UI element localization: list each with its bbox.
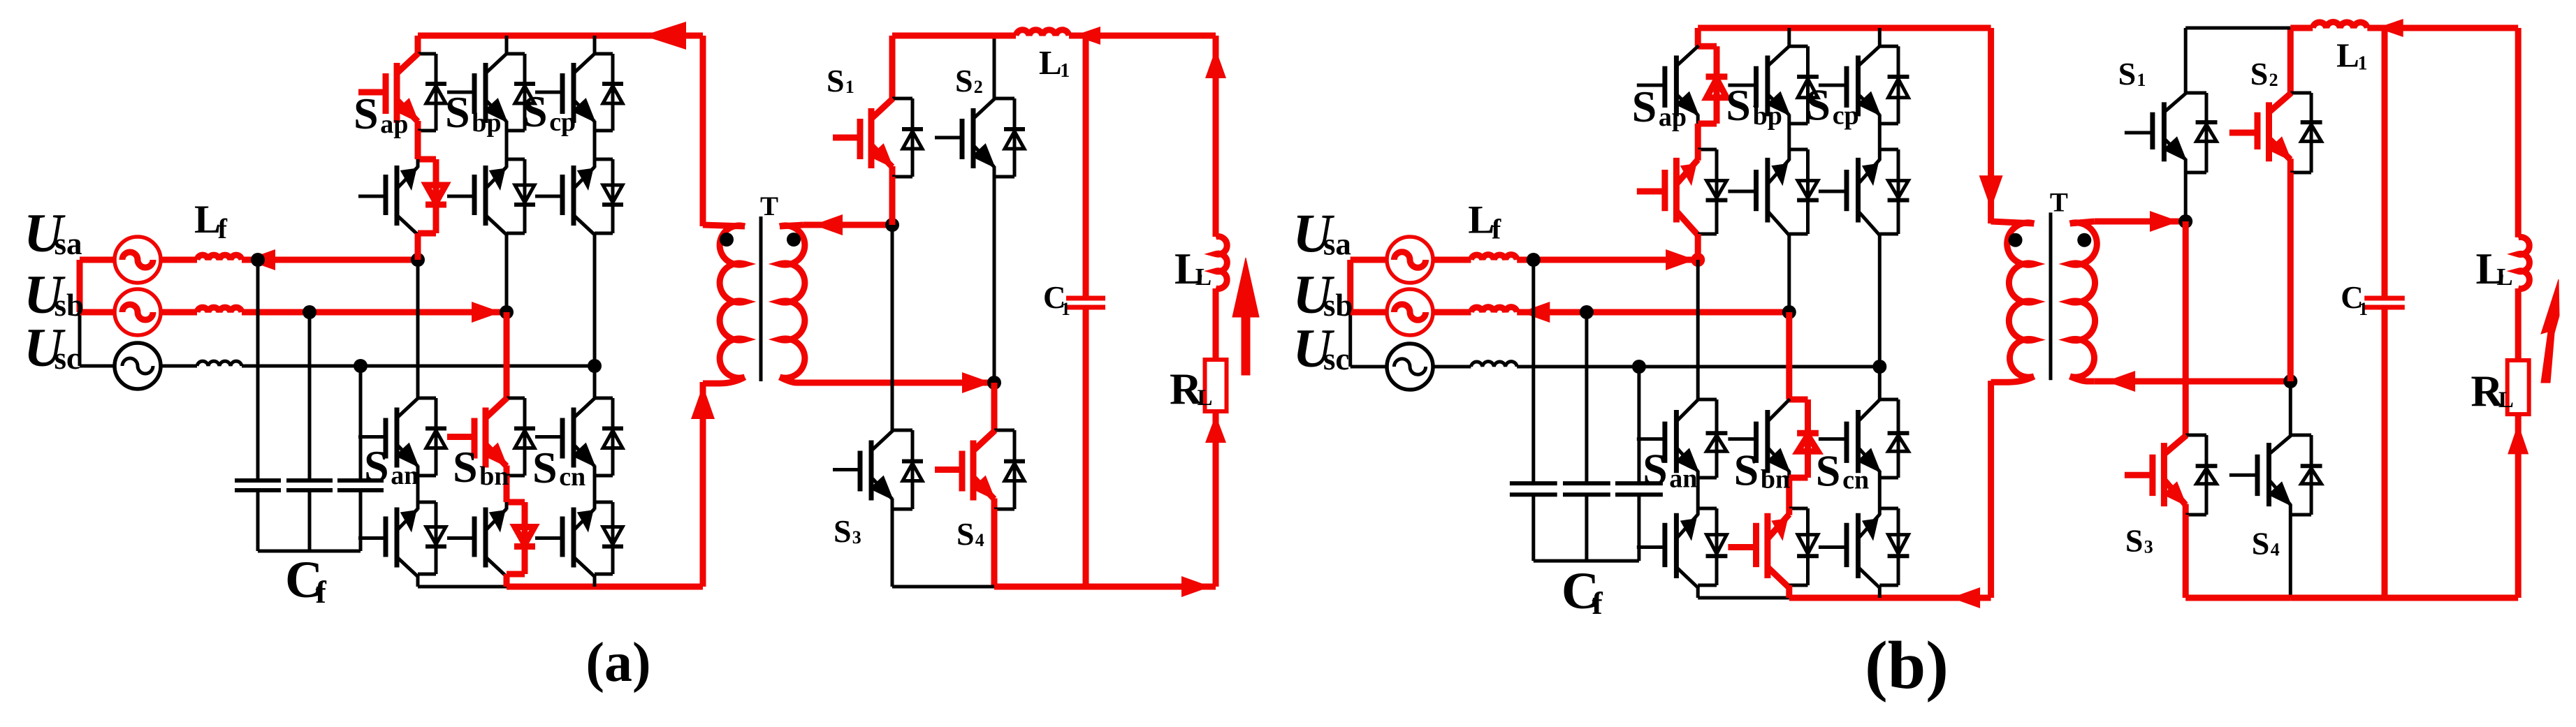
wire secondary bottom exit [2070,376,2095,381]
svg-text:an: an [391,461,419,490]
wire S_bn upper unit top [507,397,525,400]
wire phase c line [1517,365,1879,369]
svg-text:ap: ap [380,110,408,139]
transistor S_cp lower IGBT [1819,190,1846,193]
arrow current load branch top [1205,49,1226,78]
capacitor C_f unit 3 [337,478,384,483]
svg-text:(a): (a) [585,632,650,693]
wire primary top entry [703,225,745,226]
transistor S1 IGBT [833,135,859,141]
wire S3 top lead [891,225,894,430]
node phase a / filter cap 1 [1527,253,1541,267]
svg-text:S: S [453,442,478,492]
diode S4 antiparallel [2310,435,2313,515]
capacitor C1 [2364,296,2405,301]
label C1 [1043,280,1070,319]
wire S_bp lower unit top [1789,148,1808,152]
wire S_cp lower unit top [1879,148,1898,152]
wire S3 box top [2185,434,2206,437]
diode S_an upper antiparallel [1715,399,1719,478]
wire S3 box bottom [2185,513,2206,517]
label S3 [834,513,861,549]
wire S_cp upper unit bottom [1879,122,1898,126]
svg-text:3: 3 [852,527,861,548]
arrow current primary lead [691,385,715,419]
wire filter cap 2 lower lead [308,490,312,551]
transistor S3 IGBT [2125,472,2152,478]
wire S_an upper unit bottom [1698,476,1717,480]
wire bridge top rail mid [994,33,1016,39]
wire S_ap lower unit top [1698,148,1717,152]
wire load branch bottom [2515,414,2522,598]
inductor L_f phase a [1471,255,1517,260]
arrow current below R_L [1205,415,1226,443]
svg-text:S: S [1632,82,1657,131]
wire S4 box bottom [2290,513,2311,517]
wire S_bp lower unit top [507,158,525,161]
wire secondary bottom exit [780,377,803,383]
wire load branch top [2515,28,2522,237]
transistor S2 IGBT [2229,130,2257,136]
AC source U_sc [1387,344,1433,390]
diode S1 antiparallel [2205,93,2208,172]
diode S_cn lower antiparallel [611,502,615,574]
wire source U_sc left lead [80,365,116,368]
label S_bn [453,442,509,492]
wire filter cap 3 upper lead [359,366,363,480]
svg-text:ap: ap [1659,103,1687,132]
transistor S_an upper IGBT [358,435,385,439]
wire negative rail left [418,585,507,589]
node phase a / switch column a [411,253,425,267]
svg-text:L: L [2498,388,2514,413]
wire filter cap common [1534,559,1639,563]
diode S_cn lower antiparallel [1897,508,1900,585]
label C_f [1562,562,1603,621]
wire S2 box top [2290,91,2311,95]
diode S2 antiparallel [2310,93,2313,172]
wire S_ap upper unit top [418,52,436,56]
node phase a / switch column a [1691,253,1705,267]
label S_bp [445,87,501,138]
wire S_cn upper unit top [1879,398,1898,402]
wire filter cap 1 lower lead [1531,494,1535,561]
transistor S_bp upper IGBT [447,91,474,94]
wire S_bp lower unit bottom [507,232,525,235]
arrow current secondary top [813,214,843,235]
wire S_cp column to top rail [1878,28,1882,46]
label L_L [1174,244,1211,293]
label S_bn [1734,445,1791,494]
wire S1 box bottom [2185,171,2206,175]
svg-text:bn: bn [1761,464,1790,494]
wire S_cn upper unit top [595,397,613,400]
wire load branch mid [1213,288,1219,360]
svg-text:sc: sc [54,341,81,376]
capacitor C_f unit 3 [1615,481,1663,485]
diode S4 antiparallel [1013,430,1017,509]
wire S2 box top [994,97,1014,101]
svg-text:S: S [1734,445,1759,494]
wire S_an lower unit bottom [418,573,436,576]
svg-text:1: 1 [2359,299,2368,319]
diode S_an lower antiparallel [1715,508,1719,585]
wire bridge top rail right [2367,25,2518,31]
label S4 [956,516,984,552]
transistor S_ap upper IGBT [358,89,385,96]
wire secondary bottom line [803,380,994,386]
wire S2 bottom lead [2287,172,2294,381]
label S_ap [1632,82,1687,132]
inductor L_f phase b [197,307,242,312]
transistor S_cp upper IGBT [1819,84,1846,87]
diode S_cp upper antiparallel [1897,46,1900,124]
wire S_cn mid link [1878,478,1882,508]
wire S_cp upper unit top [595,52,613,56]
svg-text:S: S [2252,526,2270,561]
transistor S_an lower IGBT [1637,545,1664,549]
arrow current phase b [472,302,501,323]
transistor S3 IGBT [833,468,859,471]
wire S_cp mid link [593,131,597,159]
label S_an [364,441,419,491]
wire negative rail right [507,584,703,590]
AC source U_sa [1387,237,1433,283]
transistor S_ap lower IGBT [358,195,385,198]
wire source U_sc left lead [1351,365,1388,369]
svg-text:1: 1 [2358,53,2368,75]
wire S_bn lower unit top [1789,507,1808,511]
wire S_bn mid link [1786,478,1792,508]
wire S_bp column to top rail [505,36,509,54]
arrow current phase a [1666,249,1695,270]
wire S_an column to negative rail [1696,585,1700,598]
wire negative rail right [1789,595,1991,601]
wire S4 box top [2290,434,2311,437]
wire S_bn lower unit top [507,499,525,506]
svg-text:S: S [2250,56,2269,91]
wire S_cn column to negative rail [593,574,597,587]
wire S4 bottom lead [2289,515,2292,598]
label S4 [2252,526,2280,561]
AC source U_sb [1387,289,1433,335]
label S_bp [1726,80,1782,131]
wire S_bn upper unit top [1789,397,1808,403]
wire S_cn lower unit top [1879,507,1898,511]
wire positive rail [1698,25,1991,31]
diode S_bp upper antiparallel [1806,46,1810,124]
wire S_bn mid link [504,476,510,502]
label R_L [2471,366,2514,416]
wire S_ap lower unit top [418,156,436,163]
label S_an [1643,444,1697,494]
wire S_cp lower unit bottom [595,232,613,235]
wire phase a line [242,257,418,263]
wire S_cn lower unit top [595,501,613,504]
wire S4 box top [994,429,1014,432]
diode S_cp lower antiparallel [611,159,615,233]
wire primary bottom lead [1988,381,1994,598]
diode S_bn lower antiparallel [522,502,528,574]
diode S1 antiparallel [911,98,915,177]
diode S_ap lower antiparallel [1715,149,1719,234]
wire S_cn lower unit bottom [1879,584,1898,587]
wire S_bp mid link [1787,124,1791,149]
wire C1 lower lead [2382,307,2388,598]
wire S_ap column to top rail [415,36,421,54]
diode S3 antiparallel [911,430,915,509]
wire neutral bus a-b [1347,260,1353,312]
label L_f [1468,198,1501,245]
transistor S_bn lower IGBT [1728,544,1755,550]
wire S_cp column to top rail [593,36,597,54]
wire phase b line [242,309,507,316]
arrow current negative rail [1951,587,1980,608]
wire S_cp upper unit bottom [595,129,613,133]
svg-text:4: 4 [975,530,984,550]
svg-text:S: S [1816,446,1841,496]
arrow current positive rail [643,22,686,50]
transistor S_ap upper IGBT [1637,84,1664,87]
wire load branch mid [2515,288,2522,360]
transistor S_cn lower IGBT [535,536,562,540]
svg-text:T: T [760,191,778,221]
wire source U_sa left lead [1351,257,1388,263]
svg-text:cn: cn [559,462,585,492]
diode S_bp lower antiparallel [523,159,527,233]
transistor S_bp upper IGBT [1728,84,1755,87]
wire S_ap column to phase node [415,233,421,260]
svg-text:1: 1 [845,77,854,97]
svg-text:L: L [2496,263,2512,291]
label S2 [955,63,983,98]
wire S_an mid link [1696,478,1700,508]
wire S_an column from phase node [1696,260,1700,399]
wire bridge top rail right [1069,33,1216,39]
wire neutral bus b-c [1348,312,1352,367]
node secondary bottom junction [2283,374,2297,388]
wire load branch bottom [1213,411,1219,587]
wire source U_sb right lead [159,309,197,316]
svg-text:sa: sa [54,226,82,261]
wire primary bottom lead [700,382,706,587]
wire S_bp column to top rail [1787,28,1791,46]
wire S1 box top [2185,91,2206,95]
AC source U_sa [115,237,161,283]
svg-text:S: S [532,443,558,492]
wire S_bp upper unit bottom [1789,122,1808,126]
inductor L1 [2313,22,2367,28]
label L_f [194,198,228,244]
svg-text:sc: sc [1323,342,1350,376]
resistor R_L [1205,360,1227,411]
wire bridge top rail left [892,33,994,39]
wire S_an column from phase node [416,260,420,398]
label C_f [285,551,327,610]
arrow current secondary bottom [2106,371,2135,392]
winding transformer secondary [2070,223,2097,377]
wire S_cn upper unit bottom [595,474,613,478]
winding transformer secondary [780,226,805,378]
label S2 [2250,56,2278,91]
transistor S_cn upper IGBT [535,435,562,439]
wire S_an upper unit bottom [418,474,436,478]
label S_cn [532,443,585,492]
wire secondary top line [803,222,892,228]
inductor L_f phase c [1471,362,1517,367]
wire phase a line [1517,257,1698,263]
node secondary top junction [885,218,899,232]
node transformer secondary polarity dot [2077,233,2091,247]
arrow output current indicator [1232,258,1259,375]
label S_cn [1816,446,1869,496]
wire bridge bottom rail left [2185,595,2290,601]
label R_L [1170,364,1213,413]
winding transformer primary [720,226,745,378]
svg-text:(b): (b) [1865,628,1949,703]
svg-text:S: S [2118,56,2137,91]
diode S_cp lower antiparallel [1897,149,1900,234]
diode S3 antiparallel [2205,435,2208,515]
transistor S_cp lower IGBT [535,195,562,198]
wire S_cp lower unit bottom [1879,233,1898,236]
arrow current phase a [246,249,275,270]
wire secondary top entry [2070,221,2095,223]
diode S_bn lower antiparallel [1806,508,1810,585]
wire primary top entry [1991,221,2035,223]
svg-text:cp: cp [549,108,576,137]
svg-text:f: f [218,213,228,244]
wire filter cap 2 lower lead [1585,494,1588,561]
wire S_cp upper unit top [1879,45,1898,48]
wire S_bn column to negative rail [504,574,510,587]
svg-text:S: S [1643,444,1668,494]
wire source U_sc right lead [159,365,197,368]
label L_L [2476,244,2513,293]
wire secondary bottom line [2095,379,2291,385]
wire S_ap mid link [1695,124,1701,149]
wire S1 top lead [889,36,896,98]
svg-text:S: S [445,87,470,137]
wire S_ap upper unit top [1698,43,1717,50]
wire filter cap 2 upper lead [1585,312,1588,483]
wire S1 box bottom [892,175,912,179]
label T [2050,187,2068,217]
wire S3 box bottom [892,508,912,511]
transistor S_bn lower IGBT [447,536,474,540]
svg-text:sa: sa [1323,226,1351,261]
svg-text:S: S [834,513,852,549]
svg-text:S: S [827,63,845,98]
svg-text:S: S [2125,522,2144,558]
wire neutral bus b-c [78,312,82,366]
diode S_an upper antiparallel [435,398,438,476]
wire S_cn mid link [593,476,597,502]
transistor S_bn upper IGBT [1728,437,1755,441]
wire S_cn column from phase node [1878,367,1882,399]
node phase b / switch column b [500,305,514,319]
wire primary top lead [1988,28,1994,223]
node phase c / switch column c [588,359,602,373]
wire S_ap lower unit bottom [1698,233,1717,236]
svg-text:f: f [1592,585,1603,621]
wire S_bp column to phase node [505,233,509,312]
core transformer T [759,216,763,381]
svg-text:2: 2 [974,77,983,97]
wire S_bn column from phase node [504,312,510,398]
wire bridge bottom rail right [994,584,1216,590]
wire S_bp upper unit bottom [507,129,525,133]
label U_sc [24,317,80,378]
wire source U_sb left lead [1351,309,1388,316]
inductor L_L [1216,237,1227,289]
transistor S1 IGBT [2125,131,2152,135]
svg-text:S: S [354,89,379,138]
transistor S4 IGBT [935,467,961,473]
wire S_ap lower unit bottom [418,230,436,237]
wire S_bn upper unit bottom [507,474,525,478]
transistor S4 IGBT [2229,473,2257,477]
arrow current after L1 [1074,27,1100,45]
inductor L1 [1016,30,1069,36]
label U_sa [1293,203,1351,263]
wire phase b line [1517,309,1789,316]
wire S4 box bottom [994,508,1014,511]
core transformer T [2049,212,2053,380]
transistor S_ap lower IGBT [1637,189,1664,195]
label C1 [2341,280,2368,319]
transistor S_an lower IGBT [358,536,385,540]
wire bridge top rail mid [2290,25,2313,31]
wire S3 box top [892,429,912,432]
wire filter cap 3 lower lead [359,490,363,551]
capacitor C_f unit 1 [1510,481,1557,485]
diode S_cp upper antiparallel [611,54,615,131]
wire S_an lower unit top [1698,507,1717,511]
wire S_bn lower unit bottom [507,571,525,578]
diode S_cn upper antiparallel [1897,399,1900,478]
svg-text:T: T [2050,187,2068,217]
label S1 [827,63,854,98]
wire filter cap 2 upper lead [308,312,312,480]
wire S_cp column to phase node [1878,234,1882,367]
label S1 [2118,56,2146,91]
wire primary bottom exit [1991,376,2035,382]
transistor S_cp upper IGBT [535,91,562,94]
capacitor C_f unit 2 [1563,481,1610,485]
capacitor C_f unit 1 [235,478,281,483]
AC source U_sb [115,289,161,335]
svg-text:L: L [1198,385,1213,411]
wire S_ap upper unit bottom [1698,121,1717,127]
svg-text:S: S [955,63,973,98]
inductor L_f phase b [1471,307,1517,312]
resistor R_L [2508,360,2529,414]
svg-text:bp: bp [472,108,501,138]
wire S_bn lower unit bottom [1789,584,1808,587]
svg-text:bp: bp [1753,101,1782,131]
diode S_ap upper antiparallel [1714,46,1720,124]
svg-text:bn: bn [479,462,509,491]
wire primary top lead [700,36,706,226]
inductor L_f phase a [197,255,242,260]
arrow current bridge bottom rail [1181,576,1211,597]
wire bridge top rail left [2185,27,2290,30]
node transformer primary polarity dot [2009,233,2023,247]
arrow current phase b [1520,302,1550,323]
wire S_bn upper unit bottom [1789,475,1808,481]
node phase c / filter cap 3 [354,359,368,373]
